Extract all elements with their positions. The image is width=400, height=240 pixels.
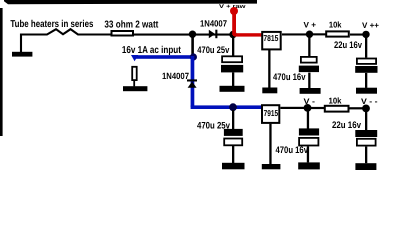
capacitor C4 470u 25v bottom: [224, 129, 243, 136]
wire middle drop: [191, 34, 194, 55]
svg-text:470u 25v: 470u 25v: [197, 45, 230, 56]
ground 7815: [262, 88, 277, 94]
ground C2: [300, 88, 321, 94]
ground C4: [222, 163, 245, 170]
capacitor C3 22u 16v: [357, 59, 376, 64]
wire V+ to 10k: [309, 33, 326, 35]
fuse F1: [132, 67, 137, 80]
wire 7915 gnd drop: [269, 124, 271, 164]
svg-text:470u 16v: 470u 16v: [273, 72, 306, 83]
wire V- drop: [307, 110, 309, 129]
ground C6: [355, 163, 376, 170]
wire blue arrow down: [131, 55, 138, 61]
svg-text:7915: 7915: [264, 108, 279, 118]
svg-text:16v 1A ac input: 16v 1A ac input: [122, 45, 182, 56]
node V-- dot: [362, 105, 370, 113]
wire C1 drop top: [232, 36, 234, 56]
wire 10k to V--: [350, 107, 367, 109]
ground C1: [220, 86, 245, 92]
svg-text:V - -: V - -: [361, 97, 378, 106]
node V-raw dot: [229, 103, 237, 111]
wire heater loop with zigzag: [21, 29, 111, 52]
wire C4 drop top: [232, 110, 234, 129]
capacitor C6 22u 16v bottom: [355, 130, 377, 137]
capacitor C1 470u 25v top: [222, 56, 242, 62]
wire blue AC horizontal: [134, 55, 196, 59]
wire 7915 output: [280, 107, 307, 109]
wire top rail: [134, 34, 232, 36]
node D1 output dot: [229, 31, 236, 38]
capacitor C5 470u 16v bottom: [299, 128, 319, 135]
node blue corner dot: [190, 53, 197, 60]
regulator U1 7815: [262, 32, 281, 50]
wire blue bottom rail: [191, 105, 262, 109]
wire V++ drop: [365, 36, 367, 58]
wire C5 drop: [307, 146, 309, 162]
svg-text:V ++: V ++: [362, 21, 379, 30]
frame left bar: [0, 8, 3, 136]
svg-text:22u 16v: 22u 16v: [332, 120, 362, 131]
wire fuse drop: [133, 81, 135, 86]
node V++ dot: [362, 31, 369, 38]
wire C3 drop: [365, 73, 367, 88]
resistor R 33ohm: [112, 31, 134, 36]
wire C2 drop: [308, 73, 310, 89]
wire C1 drop bottom: [232, 73, 234, 87]
wire 7815 gnd drop: [268, 50, 270, 88]
ground heater: [12, 52, 32, 57]
resistor 10k bottom: [325, 106, 349, 112]
frame top bar: [4, 0, 257, 4]
wire V-- drop: [365, 111, 367, 131]
ground C3: [356, 88, 377, 94]
svg-text:10k: 10k: [329, 96, 342, 106]
svg-text:1N4007: 1N4007: [162, 71, 189, 81]
ground fuse: [123, 86, 147, 91]
wire V+ drop: [308, 36, 310, 57]
wire 10k to V++: [350, 34, 366, 36]
node V- dot: [304, 104, 312, 112]
wire V- to 10k: [311, 107, 326, 109]
ground C5: [298, 162, 320, 169]
diode D2: [187, 79, 197, 81]
ground 7915: [262, 164, 281, 169]
svg-text:470u 16v: 470u 16v: [276, 145, 309, 156]
svg-text:33 ohm 2 watt: 33 ohm 2 watt: [104, 19, 159, 30]
wire red V+raw dot: [230, 7, 238, 15]
diode D1: [209, 30, 215, 39]
node V+ dot: [306, 31, 313, 38]
svg-text:22u 16v: 22u 16v: [334, 40, 363, 51]
svg-text:V +: V +: [304, 21, 317, 30]
svg-text:V -: V -: [304, 97, 316, 106]
wire red vertical: [232, 11, 236, 35]
wire C6 drop: [365, 147, 367, 164]
svg-text:10k: 10k: [329, 20, 342, 30]
wire blue vertical: [191, 56, 195, 107]
resistor 10k top: [326, 31, 349, 36]
wire C4 drop bottom: [232, 146, 234, 163]
svg-text:7815: 7815: [263, 33, 278, 43]
wire red horizontal: [233, 33, 262, 36]
svg-text:Tube heaters in series: Tube heaters in series: [10, 19, 93, 30]
capacitor C2 470u 16v: [301, 57, 317, 63]
wire 7815 output: [282, 33, 309, 35]
node AC junction dot: [189, 31, 196, 38]
regulator U2 7915: [262, 105, 279, 123]
svg-text:1N4007: 1N4007: [200, 18, 227, 28]
